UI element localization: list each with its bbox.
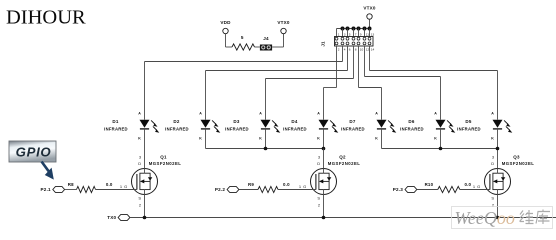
port symbol P2.3 bbox=[405, 187, 417, 193]
infrared LED D3 bbox=[259, 112, 280, 141]
wire J1 pin10 down bbox=[358, 46, 360, 88]
svg-text:3: 3 bbox=[344, 32, 346, 36]
label D6 INFRARED bbox=[400, 119, 424, 131]
svg-text:G: G bbox=[124, 184, 127, 189]
connector J1 header 2x7 bbox=[335, 37, 374, 47]
resistor R10 0.0 bbox=[438, 186, 460, 192]
wire net D5 horizontal bbox=[370, 70, 498, 72]
junction D6 cathode bbox=[439, 147, 443, 151]
svg-text:13: 13 bbox=[371, 32, 375, 36]
svg-text:1: 1 bbox=[338, 32, 340, 36]
svg-text:R8: R8 bbox=[68, 182, 74, 187]
label D3 INFRARED bbox=[225, 119, 249, 131]
label Q1 part number bbox=[149, 155, 182, 167]
wire VDD down bbox=[225, 34, 227, 47]
svg-text:3: 3 bbox=[492, 155, 495, 160]
watermark CJK 库 bbox=[536, 210, 550, 225]
svg-text:S: S bbox=[138, 196, 141, 201]
wire R5 to J4 bbox=[255, 46, 260, 48]
wire P2.3 to R10 bbox=[417, 189, 438, 191]
wire anode D5 bbox=[497, 71, 499, 120]
wire up to VTX0 bbox=[283, 34, 285, 47]
svg-text:0.0: 0.0 bbox=[283, 182, 290, 187]
svg-text:9: 9 bbox=[360, 32, 362, 36]
svg-text:K: K bbox=[317, 137, 320, 141]
power symbol VDD bbox=[220, 20, 231, 34]
wire cathode D5 bbox=[497, 129, 499, 169]
junction Q1 source bbox=[143, 216, 147, 220]
svg-text:1: 1 bbox=[120, 184, 123, 189]
GPIO callout box bbox=[9, 141, 56, 162]
pin labels Q2 bbox=[299, 155, 321, 208]
label D1 INFRARED bbox=[104, 119, 128, 131]
svg-text:Q2: Q2 bbox=[339, 155, 346, 160]
label D4 INFRARED bbox=[283, 119, 307, 131]
svg-text:VDD: VDD bbox=[220, 20, 231, 25]
svg-text:INFRARED: INFRARED bbox=[457, 126, 481, 131]
svg-text:R10: R10 bbox=[425, 182, 434, 187]
svg-text:A: A bbox=[138, 112, 141, 116]
watermark CJK 维 bbox=[520, 210, 534, 224]
wire Q2 drain bbox=[323, 149, 325, 169]
svg-text:TX0: TX0 bbox=[107, 215, 116, 220]
svg-text:VTX0: VTX0 bbox=[277, 20, 290, 25]
svg-text:MGSF2N02EL: MGSF2N02EL bbox=[328, 161, 361, 166]
svg-text:D: D bbox=[138, 161, 141, 166]
svg-text:D3: D3 bbox=[233, 119, 239, 124]
infrared LED D1 bbox=[138, 112, 159, 141]
label Q3 part number bbox=[502, 155, 535, 167]
wire P2.1 to R8 bbox=[65, 189, 77, 191]
svg-text:12: 12 bbox=[366, 48, 370, 52]
svg-text:0.0: 0.0 bbox=[464, 182, 471, 187]
svg-text:DIHOUR: DIHOUR bbox=[6, 7, 86, 29]
svg-text:K: K bbox=[138, 137, 141, 141]
svg-text:K: K bbox=[491, 137, 494, 141]
jumper J4 bbox=[260, 45, 272, 51]
wire anode D7 bbox=[381, 88, 383, 120]
svg-text:1: 1 bbox=[299, 184, 302, 189]
svg-text:G: G bbox=[303, 184, 306, 189]
wire cathode bus D7 D6 D5 bbox=[382, 148, 498, 150]
svg-text:VTX0: VTX0 bbox=[363, 6, 376, 11]
wire net D4 horizontal bbox=[324, 87, 337, 89]
wire J1 pin11 stub bbox=[364, 29, 366, 37]
resistor R9 0.0 bbox=[258, 186, 278, 192]
wire J1 pin8 down bbox=[353, 46, 355, 79]
power symbol VTX0 (left) bbox=[277, 20, 290, 34]
port symbol P2.1 bbox=[53, 187, 65, 193]
infrared LED D4 bbox=[317, 112, 338, 141]
wire J1 pin2 down bbox=[336, 46, 338, 88]
svg-text:10: 10 bbox=[360, 48, 364, 52]
wire cathode D6 bbox=[440, 129, 442, 149]
wire net D7 horizontal bbox=[359, 87, 382, 89]
wire R8 to gate 1 bbox=[96, 189, 137, 191]
wire cathode D3 bbox=[265, 129, 267, 149]
svg-text:WeeQoo: WeeQoo bbox=[455, 208, 515, 228]
wire anode D1 bbox=[144, 62, 146, 120]
svg-text:3: 3 bbox=[139, 155, 142, 160]
svg-text:INFRARED: INFRARED bbox=[283, 126, 307, 131]
junction bus pin9 bbox=[357, 27, 361, 31]
svg-text:K: K bbox=[199, 137, 202, 141]
wire source Q1 to TX0 net bbox=[144, 190, 146, 218]
junction bus pin11 bbox=[363, 27, 367, 31]
label D7 INFRARED bbox=[341, 119, 365, 131]
junction D5 cathode Q3 drain bbox=[496, 147, 500, 151]
svg-text:K: K bbox=[375, 137, 378, 141]
svg-text:5: 5 bbox=[349, 32, 351, 36]
svg-text:S: S bbox=[317, 196, 320, 201]
svg-text:Q3: Q3 bbox=[513, 155, 520, 160]
svg-text:11: 11 bbox=[366, 32, 369, 36]
wire P2.2 to R9 bbox=[239, 189, 258, 191]
wire net D2 horizontal bbox=[206, 70, 348, 72]
svg-text:INFRARED: INFRARED bbox=[341, 126, 365, 131]
svg-text:P2.1: P2.1 bbox=[41, 187, 51, 192]
svg-text:3: 3 bbox=[318, 155, 321, 160]
svg-text:K: K bbox=[259, 137, 262, 141]
wire net D6 horizontal bbox=[365, 76, 441, 78]
wire cathode D1 bbox=[144, 129, 146, 169]
svg-text:D: D bbox=[317, 161, 320, 166]
wire J1 pin12 down bbox=[364, 46, 366, 77]
wire VTX0 stem bbox=[369, 19, 371, 28]
transistor Q3 MGSF2N02EL N-MOSFET bbox=[485, 168, 511, 194]
svg-text:2: 2 bbox=[318, 202, 321, 207]
wire TX0 net bbox=[130, 217, 556, 219]
wire cathode D4 bbox=[323, 129, 325, 149]
svg-text:G: G bbox=[477, 184, 480, 189]
svg-text:D4: D4 bbox=[291, 119, 297, 124]
port symbol P2.2 bbox=[227, 187, 239, 193]
wire anode D6 bbox=[440, 77, 442, 120]
svg-text:GPIO: GPIO bbox=[16, 145, 52, 160]
svg-text:8: 8 bbox=[355, 48, 357, 52]
watermark box bbox=[452, 207, 553, 229]
svg-text:7: 7 bbox=[355, 32, 357, 36]
svg-text:INFRARED: INFRARED bbox=[104, 126, 128, 131]
infrared LED D5 bbox=[491, 112, 512, 141]
GPIO arrow bbox=[42, 162, 54, 180]
junction bus pin7 bbox=[352, 27, 356, 31]
svg-text:1: 1 bbox=[473, 184, 476, 189]
junction bus pin3 bbox=[341, 27, 345, 31]
resistor 5 bbox=[232, 44, 255, 50]
svg-text:INFRARED: INFRARED bbox=[165, 126, 189, 131]
wire R10 to gate 3 bbox=[460, 189, 490, 191]
wire anode D3 bbox=[265, 79, 267, 120]
wire anode D2 bbox=[205, 71, 207, 120]
transistor Q1 MGSF2N02EL N-MOSFET bbox=[132, 168, 158, 194]
svg-text:D5: D5 bbox=[465, 119, 471, 124]
wire cathode D2 bbox=[205, 129, 207, 149]
svg-text:A: A bbox=[434, 112, 437, 116]
svg-text:14: 14 bbox=[371, 48, 375, 52]
svg-text:2: 2 bbox=[139, 202, 142, 207]
wire J1 pin1 stub bbox=[336, 29, 338, 37]
junction D4 cathode Q2 drain bbox=[322, 147, 326, 151]
svg-text:A: A bbox=[491, 112, 494, 116]
svg-text:A: A bbox=[317, 112, 320, 116]
wire to R5 bbox=[226, 46, 233, 48]
junction Q2 source bbox=[322, 216, 326, 220]
svg-text:K: K bbox=[434, 137, 437, 141]
svg-text:0.0: 0.0 bbox=[106, 182, 113, 187]
svg-text:A: A bbox=[259, 112, 262, 116]
wire source Q2 to TX0 net bbox=[323, 190, 325, 218]
wire VTX0 bus over J1 bbox=[337, 28, 370, 30]
svg-text:J4: J4 bbox=[263, 36, 269, 41]
svg-text:D6: D6 bbox=[408, 119, 414, 124]
svg-text:J1: J1 bbox=[321, 41, 326, 47]
wire net D3 horizontal bbox=[266, 78, 354, 80]
svg-text:6: 6 bbox=[349, 48, 351, 52]
wire J1 pin6 down bbox=[347, 46, 349, 71]
svg-text:Q1: Q1 bbox=[160, 155, 167, 160]
wire net D1 horizontal bbox=[145, 61, 343, 63]
svg-text:5: 5 bbox=[241, 35, 244, 40]
svg-text:INFRARED: INFRARED bbox=[400, 126, 424, 131]
wire J4 to VTX0 bbox=[272, 46, 283, 48]
port symbol TX0 bbox=[118, 215, 130, 221]
transistor Q2 MGSF2N02EL N-MOSFET bbox=[311, 168, 337, 194]
wire J1 pin5 stub bbox=[347, 29, 349, 37]
wire R9 to gate 2 bbox=[278, 189, 316, 191]
svg-text:D: D bbox=[491, 161, 494, 166]
infrared LED D6 bbox=[434, 112, 455, 141]
infrared LED D7 bbox=[375, 112, 396, 141]
svg-text:A: A bbox=[199, 112, 202, 116]
wire J1 pin3 stub bbox=[342, 29, 344, 37]
junction Q3 source bbox=[496, 216, 500, 220]
label D2 INFRARED bbox=[165, 119, 189, 131]
svg-text:P2.2: P2.2 bbox=[215, 187, 225, 192]
wire anode D4 bbox=[323, 88, 325, 120]
svg-text:MGSF2N02EL: MGSF2N02EL bbox=[149, 161, 182, 166]
pin labels Q1 bbox=[120, 155, 142, 208]
pin numbers J1 top row bbox=[338, 32, 375, 36]
wire J1 pin9 stub bbox=[358, 29, 360, 37]
wire J1 pin14 down bbox=[369, 46, 371, 71]
svg-text:MGSF2N02EL: MGSF2N02EL bbox=[502, 161, 535, 166]
pin numbers J1 bottom row bbox=[338, 48, 375, 52]
svg-text:D1: D1 bbox=[112, 119, 118, 124]
resistor R8 0.0 bbox=[77, 186, 96, 192]
svg-text:D2: D2 bbox=[173, 119, 179, 124]
wire cathode D7 bbox=[381, 129, 383, 149]
svg-text:R9: R9 bbox=[248, 182, 254, 187]
wire cathode bus D2 D3 D4 bbox=[206, 148, 324, 150]
wire J1 pin4 down bbox=[342, 46, 344, 62]
junction bus pin13 bbox=[368, 27, 372, 31]
junction D3 cathode bbox=[264, 147, 268, 151]
wire J1 pin13 stub bbox=[369, 29, 371, 37]
svg-text:4: 4 bbox=[344, 48, 346, 52]
svg-text:2: 2 bbox=[338, 48, 340, 52]
svg-text:P2.3: P2.3 bbox=[393, 187, 403, 192]
infrared LED D2 bbox=[199, 112, 220, 141]
junction bus pin5 bbox=[346, 27, 350, 31]
svg-text:S: S bbox=[491, 196, 494, 201]
wire source Q3 to TX0 net bbox=[497, 190, 499, 218]
pin labels Q3 bbox=[473, 155, 495, 208]
svg-text:A: A bbox=[375, 112, 378, 116]
svg-text:D7: D7 bbox=[349, 119, 355, 124]
wire J1 pin7 stub bbox=[353, 29, 355, 37]
label D5 INFRARED bbox=[457, 119, 481, 131]
svg-text:INFRARED: INFRARED bbox=[225, 126, 249, 131]
power symbol VTX0 (at J1) bbox=[363, 6, 376, 20]
label Q2 part number bbox=[328, 155, 361, 167]
